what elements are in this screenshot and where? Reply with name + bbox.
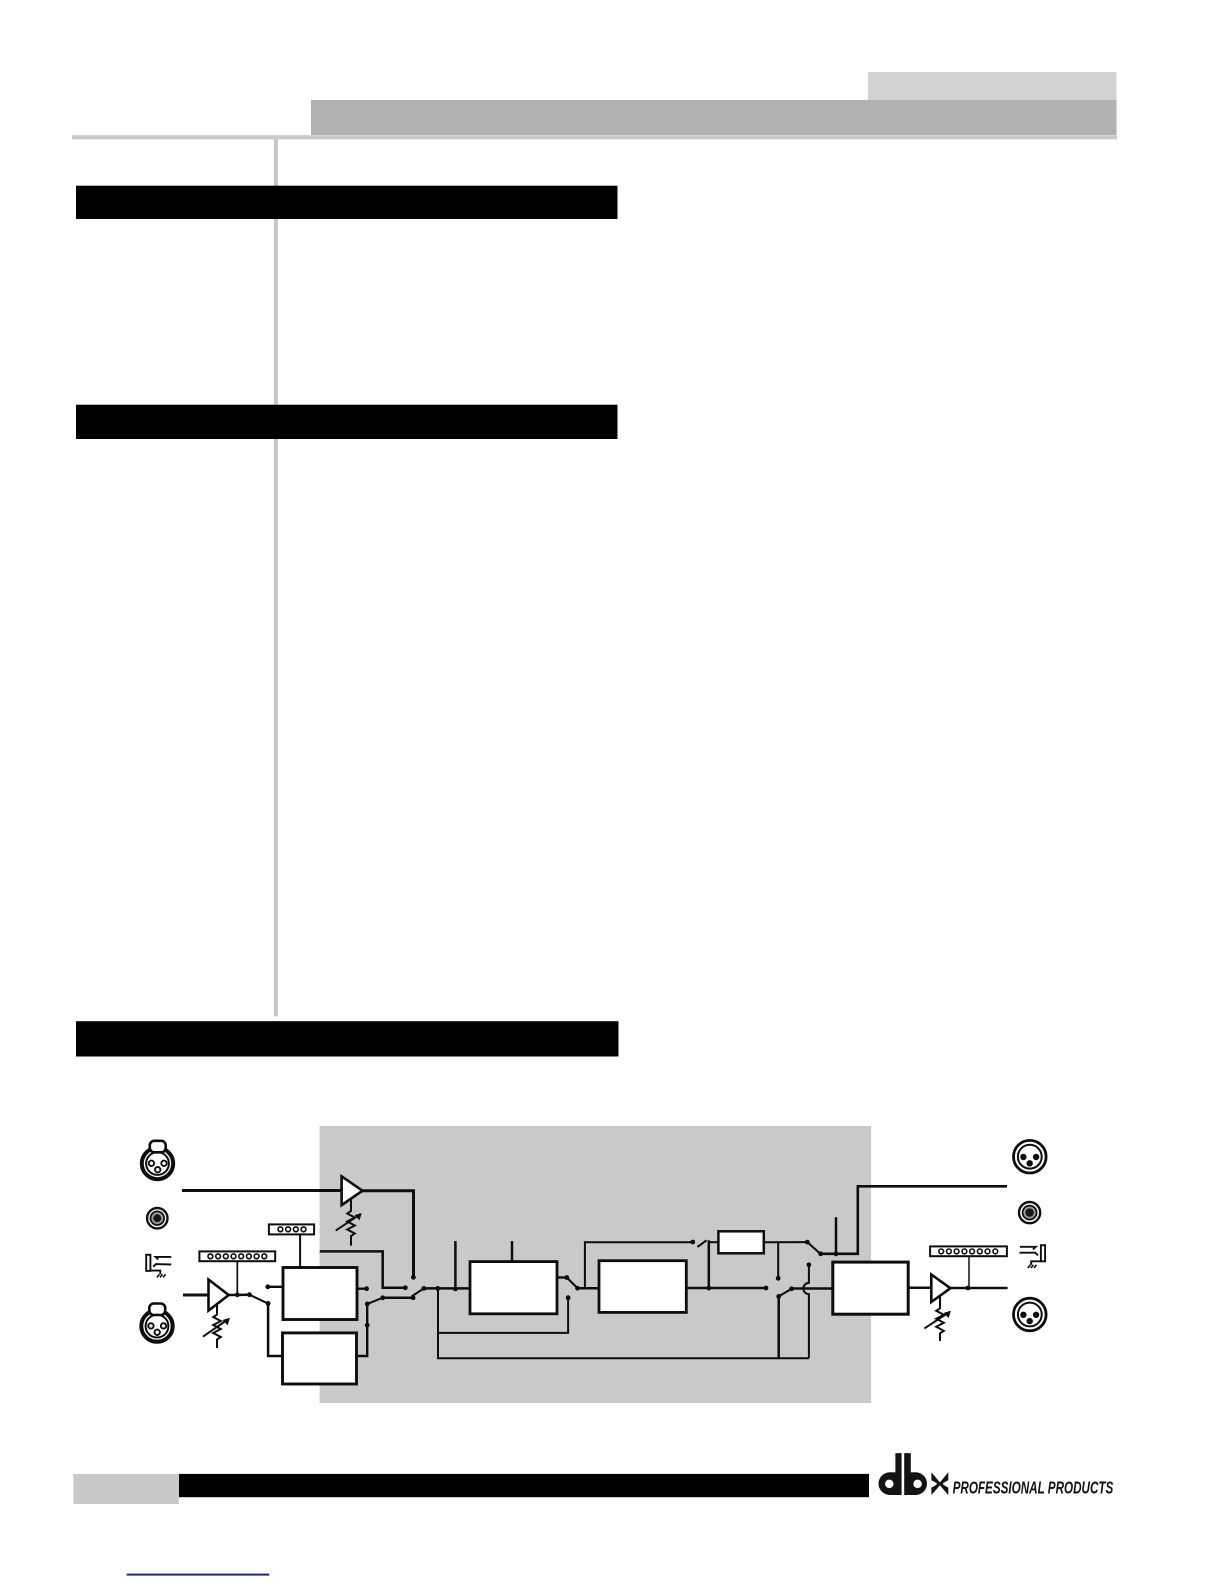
wire: 4-switch DIP down to block B1 top — [299, 1234, 301, 1267]
node: bus junction to feedback — [435, 1286, 440, 1291]
node: bus junction stub — [453, 1287, 458, 1292]
wire: B2 output stub up to switch contact — [357, 1305, 368, 1356]
wire: S5 pole vertical down to B4 output line — [708, 1240, 711, 1288]
wire: S4 pole to block B4 — [578, 1287, 600, 1290]
wire: U3 output to bottom-right XLR — [950, 1287, 1007, 1290]
wire: junction down from B5 output to lower switch contact — [777, 1242, 779, 1276]
dbx tagline text — [953, 1479, 1114, 1498]
DIP switch row (4) — [269, 1224, 314, 1234]
switch S1 (after U1) — [247, 1292, 252, 1297]
header medium gray bar — [311, 100, 1117, 135]
wire: vertical stub to block B3 top — [511, 1241, 514, 1262]
RCA jack J6 (right) — [1019, 1202, 1040, 1223]
black header bar 1 — [76, 186, 618, 219]
XLR male J8 (bottom right) — [1014, 1298, 1047, 1331]
wire: B1 output stub to contact — [357, 1287, 365, 1289]
DIP switch row (8, left) — [199, 1251, 275, 1261]
wire: S8 lower contact down to feedback line — [777, 1296, 780, 1358]
vertical divider — [274, 139, 278, 1016]
blue rule bottom left — [127, 1574, 270, 1576]
wire: S8 pole into output block B6 — [792, 1287, 833, 1290]
switch S4 lever — [567, 1278, 577, 1288]
phone jack symbol J3 (left) — [146, 1255, 171, 1278]
wire: S1 lower contact down and into block B2 — [268, 1303, 282, 1356]
wire: main bus S3 to block B3 — [424, 1287, 470, 1290]
wire: feedback branch to S4 lower contact — [438, 1299, 568, 1333]
black header bar 3 — [76, 1021, 619, 1056]
wire: gray-edge line, corner down to switch contact C5 — [320, 1251, 404, 1287]
node: output junction to right DIP — [966, 1286, 971, 1291]
switch S5 lever — [697, 1240, 706, 1247]
potentiometer VR2 under U2 — [336, 1200, 362, 1246]
phone jack symbol J7 (right, mirrored) — [1020, 1245, 1046, 1268]
potentiometer VR3 under U3 — [924, 1296, 951, 1341]
dbx logo — [879, 1453, 949, 1495]
wire: S6 pole to output corner and to top-right XLR — [821, 1186, 1007, 1254]
wire: sidechain up-and-over to bypass block B5 — [585, 1242, 691, 1288]
op-amp U1 (input amp left) — [209, 1280, 229, 1311]
block B1 — [283, 1268, 357, 1320]
XLR female J1 (top left) — [142, 1141, 173, 1179]
switch S2 lever — [367, 1298, 381, 1304]
op-amp U3 (output amp) — [931, 1275, 950, 1303]
block B2 — [283, 1333, 357, 1384]
header light gray box — [868, 72, 1117, 106]
wire: S2 pole to S3 pole — [383, 1297, 413, 1300]
footer page-number gray box — [73, 1474, 179, 1504]
wire: B3 output stub — [557, 1276, 565, 1278]
wire: vertical stub above S6 — [835, 1217, 838, 1254]
wire: left DIP row down to U1 output node — [236, 1261, 238, 1295]
wire: right DIP row down to output node — [968, 1256, 970, 1288]
wire: B6 to op-amp U3 — [908, 1287, 931, 1290]
wire: S5 pole into block B5 — [709, 1241, 719, 1243]
horizontal rule — [72, 135, 1117, 139]
wire: S1 upper contact into block B1 — [268, 1286, 283, 1288]
wire: hop-over crossing down to feedback line — [803, 1265, 809, 1359]
block B6 (output block) — [833, 1262, 908, 1314]
black header bar 2 — [76, 405, 618, 439]
XLR female J4 (bottom left) — [141, 1304, 172, 1342]
wire: U1 output to switch S1 — [229, 1293, 250, 1296]
wire: feedback bottom line back to bus junction — [438, 1288, 809, 1358]
wire: U2 output over and down to switch contact — [363, 1191, 414, 1276]
switch S6 lever (output select) — [807, 1242, 819, 1253]
svg-text:PROFESSIONAL PRODUCTS: PROFESSIONAL PRODUCTS — [953, 1479, 1114, 1498]
wire: B4 output bus to switch contact — [686, 1287, 766, 1290]
wire: vertical stub above bus — [454, 1241, 457, 1289]
node: junction with vertical stub — [834, 1251, 839, 1256]
wire: top-left XLR line to amp U2 — [182, 1189, 342, 1192]
block B3 — [470, 1262, 557, 1314]
DIP switch row (8, right) — [930, 1246, 1007, 1256]
XLR male J5 (top right) — [1014, 1140, 1047, 1173]
block B4 — [599, 1261, 686, 1313]
wire: B5 output to switch S6 contact — [764, 1241, 806, 1243]
diagram gray background — [320, 1126, 872, 1403]
RCA jack J2 (left) — [147, 1208, 167, 1228]
wire: left input line to amp U1 — [183, 1294, 209, 1297]
switch S8 (before output block) — [776, 1294, 781, 1299]
potentiometer VR1 under U1 — [203, 1305, 230, 1349]
block B5 (small bypass block) — [718, 1231, 763, 1253]
footer black bar — [179, 1474, 869, 1497]
switch S3 lever — [412, 1288, 424, 1296]
node: U1 output junction — [235, 1292, 240, 1297]
op-amp U2 (top amp in gray area) — [342, 1176, 363, 1205]
switch S7 contact (feedback tap) — [807, 1262, 812, 1267]
